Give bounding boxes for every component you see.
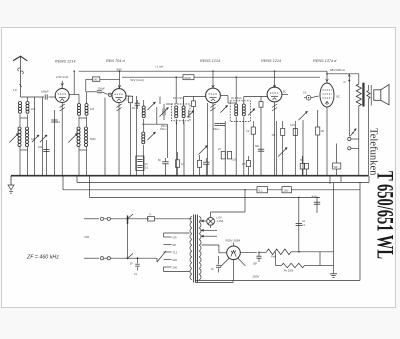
svg-text:5000: 5000 (90, 138, 96, 141)
svg-text:250V: 250V (253, 275, 260, 279)
svg-text:240: 240 (173, 265, 178, 269)
svg-text:Tr: Tr (149, 212, 151, 216)
svg-text:0,05: 0,05 (232, 159, 237, 162)
svg-text:SP: SP (173, 243, 177, 247)
svg-text:0,1: 0,1 (302, 224, 306, 227)
svg-text:RENS 1214: RENS 1214 (200, 59, 220, 63)
svg-text:BC: BC (283, 91, 287, 94)
svg-text:TA: TA (352, 132, 355, 135)
svg-text:T 650/651 WL: T 650/651 WL (372, 171, 398, 259)
svg-text:Rv 2000: Rv 2000 (284, 270, 294, 273)
svg-text:0,5: 0,5 (303, 92, 307, 95)
svg-text:ZF = 460 kHz: ZF = 460 kHz (26, 255, 59, 261)
svg-text:150+x: 150+x (160, 128, 167, 131)
svg-text:Cü: Cü (302, 220, 306, 223)
svg-text:52V (1mA): 52V (1mA) (131, 78, 144, 82)
svg-text:0,1: 0,1 (57, 120, 61, 124)
svg-text:0,1: 0,1 (259, 189, 264, 193)
svg-text:ZF: ZF (130, 263, 133, 266)
svg-text:0,15: 0,15 (290, 124, 295, 127)
svg-text:98V±28mA: 98V±28mA (330, 68, 345, 72)
svg-text:100: 100 (132, 108, 137, 110)
svg-text:REMS 1214: REMS 1214 (55, 60, 75, 64)
svg-text:RGN 1054: RGN 1054 (226, 239, 241, 243)
svg-text:50: 50 (158, 159, 161, 162)
svg-text:D: D (344, 80, 346, 84)
svg-text:2,5V 2mA: 2,5V 2mA (56, 75, 68, 79)
svg-text:0,1: 0,1 (145, 167, 149, 170)
svg-text:220: 220 (173, 258, 178, 262)
svg-text:GR: GR (173, 235, 177, 239)
svg-text:BC: BC (337, 96, 341, 99)
svg-text:150: 150 (283, 189, 288, 193)
svg-text:100: 100 (90, 108, 95, 111)
svg-text:1M: 1M (321, 130, 324, 133)
svg-text:100: 100 (38, 146, 43, 149)
svg-text:680: 680 (255, 145, 260, 148)
svg-text:150+x: 150+x (213, 128, 220, 131)
svg-text:2V: 2V (218, 148, 221, 151)
svg-text:0,5: 0,5 (242, 163, 246, 166)
svg-text:Telefunken: Telefunken (368, 128, 379, 176)
svg-text:30F: 30F (253, 263, 258, 266)
svg-text:TL2: TL2 (173, 250, 178, 254)
svg-text:1,25A: 1,25A (217, 219, 224, 223)
svg-text:REN 704 d: REN 704 d (106, 59, 125, 63)
svg-text:1M: 1M (272, 134, 275, 137)
svg-text:0,1: 0,1 (181, 163, 185, 166)
svg-text:0105: 0105 (185, 76, 192, 80)
svg-text:RENS 1374 d: RENS 1374 d (313, 59, 337, 63)
svg-text:100: 100 (31, 108, 36, 111)
svg-text:4μF: 4μF (312, 195, 317, 199)
svg-text:WD: WD (334, 166, 338, 169)
svg-text:30: 30 (211, 269, 214, 271)
svg-text:180pF: 180pF (41, 89, 49, 93)
svg-text:RENS 1214: RENS 1214 (261, 59, 281, 63)
svg-text:250pF: 250pF (98, 87, 106, 91)
svg-text:DW: DW (85, 235, 90, 239)
svg-text:4W 4,5mA: 4W 4,5mA (173, 97, 185, 100)
svg-text:i 1 mA: i 1 mA (155, 65, 163, 69)
svg-text:140: 140 (93, 78, 98, 81)
svg-text:1,8: 1,8 (13, 88, 17, 92)
svg-text:LS: LS (134, 273, 137, 276)
svg-text:0,2: 0,2 (246, 130, 250, 133)
